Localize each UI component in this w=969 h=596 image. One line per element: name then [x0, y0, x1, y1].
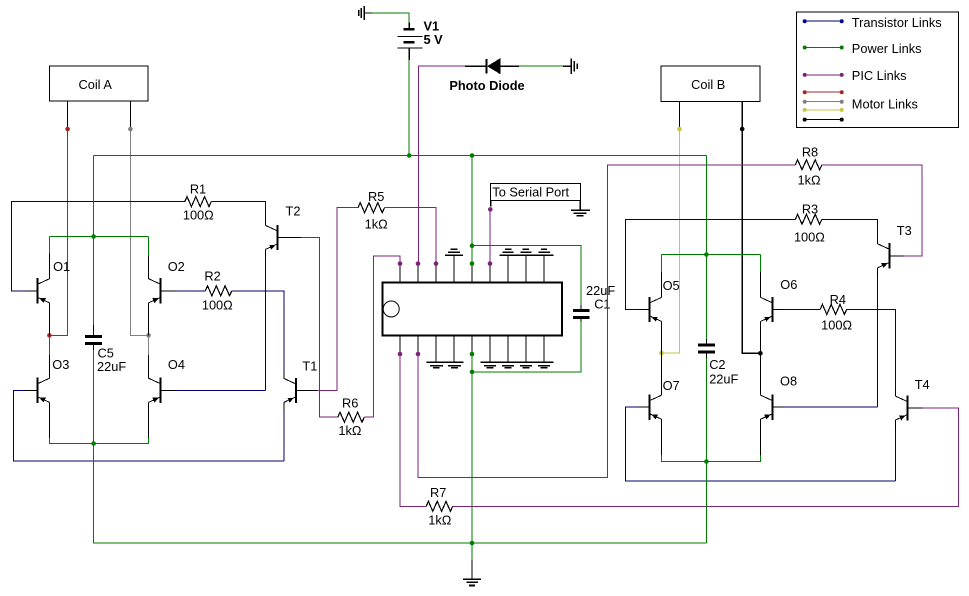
wire C5 top lead (green): [93, 156, 95, 336]
capacitor C2: [698, 345, 715, 352]
wire O8 emitter (green): [706, 419, 760, 461]
label R8 value: [798, 173, 822, 188]
legend transistor links entry: [803, 15, 942, 30]
label T4: [915, 377, 930, 392]
svg-text:T2: T2: [286, 204, 301, 219]
resistor R8: [795, 160, 822, 170]
svg-text:O6: O6: [780, 277, 797, 292]
wire O2 collector (green): [148, 237, 150, 279]
capacitor C1: [573, 311, 590, 318]
label O4: [168, 357, 185, 372]
label C1: [594, 296, 610, 311]
legend power links entry: [803, 41, 922, 56]
transistor O3: [25, 378, 49, 403]
node battery / power rail junction: [407, 153, 412, 158]
label O3: [52, 357, 69, 372]
svg-text:22uF: 22uF: [97, 359, 126, 374]
Coil B box: [661, 66, 760, 101]
wire T1 base to R5 (purple): [317, 208, 358, 391]
svg-text:O4: O4: [168, 357, 185, 372]
label T3: [897, 223, 912, 238]
svg-text:C2: C2: [709, 357, 725, 372]
wire O7 collector: [661, 353, 663, 395]
svg-text:R2: R2: [204, 269, 220, 284]
svg-text:R1: R1: [190, 182, 206, 197]
wire O2 base to R2 (navy): [176, 290, 205, 292]
wire O3 collector (red): [48, 335, 50, 378]
wire IC ground pin down (green): [471, 354, 473, 543]
label C1 value: [586, 283, 615, 298]
wire O4 emitter (green): [94, 402, 149, 443]
wire Coil B left lead: [679, 102, 681, 130]
transistor O6: [761, 297, 785, 322]
wire O1-O2 collector link (green): [49, 236, 148, 238]
svg-text:1kΩ: 1kΩ: [365, 217, 389, 232]
wire C1 to IC ground pin (green): [472, 317, 581, 372]
wire O3 emitter (green): [49, 402, 93, 443]
label R1: [190, 182, 206, 197]
svg-text:Power Links: Power Links: [852, 41, 922, 56]
svg-text:O3: O3: [52, 357, 69, 372]
capacitor C5: [85, 337, 102, 344]
label R8: [802, 145, 818, 160]
svg-text:R4: R4: [830, 292, 846, 307]
wire O5-O6 collector link (green): [662, 254, 761, 256]
IC pin 2 (top): [416, 261, 421, 282]
label R2 value: [202, 297, 233, 312]
wire Coil A right lead: [129, 101, 131, 129]
node C1 / ground net junction: [470, 370, 475, 375]
wire motor link Coil B right to O6/O8 junction (black): [742, 129, 760, 353]
transistor T2: [266, 225, 302, 250]
label R7: [430, 485, 446, 500]
svg-text:1kΩ: 1kΩ: [338, 423, 362, 438]
node O6 emitter / O8 collector junction (black dot): [758, 351, 763, 356]
legend motor links gray entry: [803, 97, 918, 112]
wire battery to power rail (green): [408, 60, 410, 156]
battery V1: [398, 23, 423, 61]
wire C2 top lead (green): [705, 156, 707, 345]
transistor O1: [25, 278, 49, 303]
wire O4 collector (gray): [148, 335, 150, 378]
label O2: [168, 259, 185, 274]
ground (main, bottom): [463, 579, 481, 585]
wire R4 to T4 collector (navy): [847, 309, 896, 390]
label 5 V: [424, 32, 444, 47]
transistor T3: [878, 243, 904, 268]
svg-text:T3: T3: [897, 223, 912, 238]
svg-text:Coil B: Coil B: [691, 77, 725, 92]
wire IC Vcc to power rail (green): [471, 156, 473, 264]
wire C5 bottom lead (green): [93, 345, 95, 444]
label C5: [98, 346, 114, 361]
transistor T4: [895, 396, 922, 421]
wire PIC link photo diode to IC pin2 (purple): [419, 66, 465, 263]
label R2: [204, 269, 220, 284]
wire T4 emitter (navy): [894, 420, 896, 481]
wire Coil A left lead: [67, 101, 69, 129]
svg-text:R3: R3: [802, 202, 818, 217]
svg-text:O1: O1: [53, 259, 70, 274]
legend motor links red entry: [803, 90, 844, 94]
transistor O2: [149, 278, 176, 303]
label R5: [368, 189, 384, 204]
node C5 top / collector link junction: [91, 234, 96, 239]
resistor R7: [426, 501, 453, 511]
svg-text:T1: T1: [302, 359, 317, 374]
node C2 top / collector link junction: [704, 252, 709, 257]
legend box: [797, 12, 959, 127]
wire O8 base to T3 emitter (navy): [784, 406, 878, 408]
label R7 value: [428, 512, 452, 527]
legend PIC links entry: [803, 68, 907, 83]
resistor R6: [338, 412, 365, 422]
IC pin 5 Vcc (top): [470, 261, 475, 282]
node motor link B1 (yellow dot): [677, 127, 682, 132]
svg-text:Transistor Links: Transistor Links: [852, 15, 942, 30]
node ground rail junction: [470, 541, 475, 546]
svg-text:O2: O2: [168, 259, 185, 274]
node C2 bottom / emitter link junction: [704, 459, 709, 464]
wire O5 collector (green): [661, 255, 663, 298]
wire C2 to ground rail (green): [705, 462, 707, 544]
label C2: [709, 357, 725, 372]
wire Coil B right lead: [741, 102, 743, 130]
resistor R1: [185, 197, 212, 207]
wire IC pin18 to R7 (purple): [400, 354, 426, 506]
svg-text:1kΩ: 1kΩ: [428, 512, 452, 527]
wire R6 to IC pin1 (purple): [364, 256, 400, 417]
IC pin 6 (top): [488, 261, 493, 282]
svg-text:100Ω: 100Ω: [183, 208, 214, 223]
ground (serial port): [571, 200, 590, 216]
svg-text:100Ω: 100Ω: [821, 318, 852, 333]
wire IC pin17 to R8 (purple): [418, 165, 795, 478]
wire motor link Coil B left to O5/O7 junction (yellow): [662, 129, 680, 353]
resistor R4: [820, 304, 847, 314]
wire Vcc branch to C1 (green): [472, 246, 581, 310]
label R4 value: [821, 318, 852, 333]
wire R7 to T4 base (purple): [453, 408, 959, 506]
svg-text:Coil A: Coil A: [78, 77, 112, 92]
wire O5 base rail (navy): [626, 219, 796, 309]
svg-text:100Ω: 100Ω: [794, 230, 825, 245]
transistor T1: [284, 378, 317, 403]
wire O5 emitter: [661, 321, 663, 353]
wire C5/ground rail left (green): [94, 444, 707, 544]
IC pin 3 (top): [434, 261, 439, 282]
wire O7 emitter (green): [662, 419, 707, 461]
wire photo diode to ground (green): [519, 65, 563, 67]
legend motor links yellow entry: [803, 108, 844, 112]
wire O1 base rail (navy): [11, 202, 185, 291]
svg-text:To Serial Port: To Serial Port: [492, 185, 569, 200]
node motor link B2 (black dot): [740, 127, 745, 132]
IC pin 14 ground pin (bottom): [470, 335, 475, 356]
label R6 value: [338, 423, 362, 438]
wire T4 collector: [894, 390, 896, 396]
label C2 value: [709, 372, 738, 387]
node IC Vcc / power rail junction: [470, 153, 475, 158]
svg-text:5 V: 5 V: [424, 32, 444, 47]
wire T2 collector: [264, 219, 266, 225]
node O2 emitter / O4 collector junction (gray dot): [146, 333, 151, 338]
svg-text:22uF: 22uF: [709, 372, 738, 387]
svg-text:Photo Diode: Photo Diode: [449, 78, 524, 93]
wire O1 collector (green): [48, 237, 50, 279]
To Serial Port box: [491, 184, 581, 201]
ground (photo diode): [563, 58, 577, 74]
wire ground to battery V1 (green): [372, 13, 409, 24]
label R5 value: [365, 217, 389, 232]
wire O6 base to R4 (navy): [784, 308, 820, 310]
label O1: [53, 259, 70, 274]
node O1 emitter / O3 collector junction (red dot): [47, 333, 52, 338]
wire motor link Coil A right to O2/O4 junction (gray): [130, 129, 148, 335]
wire power rail top (green): [94, 155, 707, 157]
label R3: [802, 202, 818, 217]
label Photo Diode: [449, 78, 524, 93]
svg-text:R8: R8: [802, 145, 818, 160]
wire O4 base to T2 emitter (navy): [176, 389, 265, 391]
IC pin 17 (bottom): [416, 335, 421, 356]
label V1: [424, 19, 440, 34]
label T2: [286, 204, 301, 219]
transistor O5: [638, 297, 662, 322]
svg-text:R6: R6: [342, 396, 358, 411]
wire T3 emitter (navy): [877, 268, 879, 407]
photo diode D1: [465, 58, 519, 74]
IC pins 16-15 (bottom) with shared ground: [427, 335, 464, 367]
label O5: [663, 278, 680, 293]
wire serial port to IC pin6 (purple): [489, 209, 491, 263]
wire R3 to T3 collector (navy): [822, 219, 878, 238]
IC pins 7-9 (top) with shared inverted ground: [499, 249, 553, 283]
ground (battery, top left): [359, 6, 373, 20]
wire O6 collector (green): [759, 255, 761, 298]
wire O2 emitter: [148, 303, 150, 336]
wire serial port lead: [490, 200, 492, 206]
transistor O7: [638, 395, 662, 420]
wire O7 base rail to T4 emitter (navy): [626, 407, 896, 481]
transistor O8: [761, 395, 785, 420]
wire T3 collector: [877, 238, 879, 244]
node C5 bottom / emitter link junction: [91, 441, 96, 446]
wire R8 to T3 base (purple): [822, 165, 922, 256]
svg-text:O5: O5: [663, 278, 680, 293]
node C1 branch junction: [470, 243, 475, 248]
wire O8 collector: [759, 353, 761, 395]
wire C2 bottom lead (green): [705, 353, 707, 462]
wire motor link Coil A left to O1/O3 junction (red): [49, 129, 67, 335]
node motor link A1 (red dot): [65, 127, 70, 132]
label O8: [780, 374, 797, 389]
legend motor links black entry: [803, 118, 844, 122]
resistor R2: [205, 286, 232, 296]
svg-text:R5: R5: [368, 189, 384, 204]
IC pin 4 (top) with inverted ground: [445, 249, 463, 283]
resistor R5: [358, 203, 385, 213]
svg-text:1kΩ: 1kΩ: [798, 173, 822, 188]
wire R2 to T1 collector (navy): [232, 291, 284, 371]
label R4: [830, 292, 846, 307]
wire T2 base to R6 (purple): [301, 237, 338, 417]
wire T1 emitter (navy): [283, 402, 285, 461]
label C5 value: [97, 359, 126, 374]
svg-text:O7: O7: [663, 378, 680, 393]
svg-text:PIC Links: PIC Links: [852, 68, 907, 83]
label O7: [663, 378, 680, 393]
label T1: [302, 359, 317, 374]
wire O1 emitter: [48, 303, 50, 336]
node O5 emitter / O7 collector junction (yellow dot): [659, 351, 664, 356]
wire R1 to T2 collector (navy): [211, 202, 265, 219]
IC pin 18 (bottom): [398, 335, 403, 356]
label R6: [342, 396, 358, 411]
wire T1 collector: [283, 371, 285, 378]
svg-text:O8: O8: [780, 374, 797, 389]
wire R5 to IC pin3 (purple): [385, 208, 436, 264]
transistor O4: [149, 378, 176, 403]
label R1 value: [183, 208, 214, 223]
label O6: [780, 277, 797, 292]
wire O6 emitter: [759, 321, 761, 353]
resistor R3: [795, 214, 822, 224]
IC pin 1 (top): [398, 261, 403, 282]
node motor link A2 (gray dot): [128, 127, 133, 132]
wire T2 emitter (navy): [264, 249, 266, 390]
wire ground stem: [471, 543, 473, 579]
svg-text:Motor Links: Motor Links: [852, 97, 918, 112]
Coil A box: [50, 66, 149, 101]
svg-text:R7: R7: [430, 485, 446, 500]
svg-text:100Ω: 100Ω: [202, 297, 233, 312]
label R3 value: [794, 230, 825, 245]
svg-text:T4: T4: [915, 377, 930, 392]
IC pins 13-10 (bottom) with shared ground: [480, 335, 553, 367]
IC U1 body: [383, 283, 562, 336]
node serial port connection (purple dot): [488, 207, 493, 212]
wire O3 base rail to T1 emitter (navy): [13, 390, 284, 461]
